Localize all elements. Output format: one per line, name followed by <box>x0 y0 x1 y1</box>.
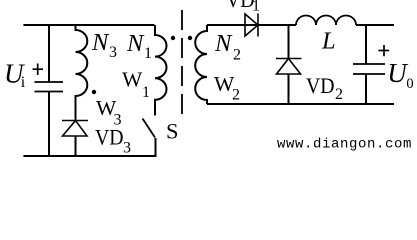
svg-text:S: S <box>166 119 179 144</box>
wire VD1 to inductor <box>245 24 296 26</box>
svg-text:VD: VD <box>95 125 124 150</box>
polarity dot N1 <box>171 36 175 40</box>
svg-text:VD: VD <box>306 73 335 98</box>
diode VD1 <box>245 14 258 37</box>
capacitor C output plates <box>353 64 385 74</box>
svg-text:VD: VD <box>226 0 255 12</box>
svg-text:N: N <box>126 30 145 57</box>
transformer core (dashed) <box>181 10 183 114</box>
svg-text:3: 3 <box>123 140 131 157</box>
svg-text:www.diangon.com: www.diangon.com <box>277 137 412 153</box>
winding N1 primary <box>155 25 167 116</box>
svg-text:1: 1 <box>144 45 152 62</box>
svg-text:0: 0 <box>406 76 413 92</box>
wire VD3 to bottom rail <box>75 113 77 156</box>
wire VD2 branch top <box>288 25 290 59</box>
wire top rail secondary (to VD1) <box>207 24 245 26</box>
wire VD2 branch bottom <box>288 74 290 104</box>
wire switch to bottom rail <box>155 138 157 156</box>
polarity dot N3 <box>92 90 96 94</box>
polarity dot N2 <box>188 36 192 40</box>
svg-text:W: W <box>122 68 143 92</box>
wire capacitor branch top <box>48 25 50 82</box>
plus sign input <box>33 64 44 76</box>
winding N2 secondary <box>195 25 207 104</box>
svg-text:N: N <box>91 29 110 56</box>
wire top rail primary <box>23 24 154 26</box>
diode VD3 <box>62 121 88 137</box>
svg-text:2: 2 <box>233 47 241 64</box>
svg-text:2: 2 <box>335 86 343 103</box>
winding N3 <box>76 25 88 113</box>
svg-text:2: 2 <box>232 87 240 104</box>
plus sign output <box>378 45 389 56</box>
svg-text:i: i <box>21 74 26 91</box>
wire bottom rail primary <box>23 155 156 157</box>
wire output capacitor branch top <box>365 25 367 64</box>
wire output capacitor branch bottom <box>365 74 367 104</box>
svg-text:N: N <box>214 30 233 57</box>
wire bottom rail secondary <box>207 103 394 105</box>
wire capacitor branch bottom <box>48 92 50 157</box>
wire inductor to right terminal <box>356 24 394 26</box>
switch S blade <box>143 119 156 138</box>
svg-text:L: L <box>321 28 336 55</box>
capacitor C input plates <box>35 82 64 92</box>
svg-text:3: 3 <box>109 44 117 61</box>
diode VD2 <box>276 59 302 75</box>
inductor L <box>296 16 356 26</box>
svg-text:1: 1 <box>142 84 150 101</box>
svg-text:1: 1 <box>252 0 260 15</box>
svg-text:U: U <box>387 58 408 88</box>
